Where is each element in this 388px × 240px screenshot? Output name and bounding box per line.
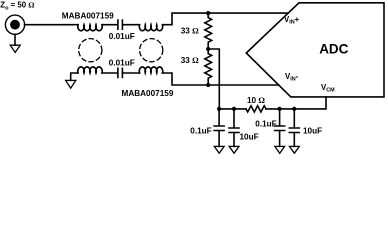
svg-text:10uF: 10uF <box>303 126 322 135</box>
svg-text:VIN-: VIN- <box>285 72 299 83</box>
node rail D <box>292 107 296 111</box>
ground (C6) <box>290 146 300 153</box>
wire center tap to VCM rail <box>208 49 219 109</box>
transformer T1 secondary winding <box>78 67 102 73</box>
transformer T2 primary winding <box>139 25 162 31</box>
node rail C <box>278 107 282 111</box>
wire T1 to C2 <box>102 72 117 74</box>
transformer T1 core (dashed circle) <box>79 39 102 62</box>
svg-text:MABA007159: MABA007159 <box>122 89 174 98</box>
op-amp ADC body (pentagon) <box>246 3 384 97</box>
ground (C3) <box>214 146 224 153</box>
resistor R1 33ohm (vertical) <box>205 13 212 49</box>
ground (C5) <box>275 146 285 153</box>
resistor R2 33ohm (vertical) <box>205 49 212 85</box>
capacitor C4 10uF (shunt) <box>229 109 239 146</box>
node top of R1 <box>206 11 210 15</box>
svg-text:Zo = 50 Ω: Zo = 50 Ω <box>0 1 34 12</box>
transformer T2 secondary winding <box>139 67 162 73</box>
node rail B <box>232 107 236 111</box>
svg-text:ADC: ADC <box>319 41 348 56</box>
ground (T1 secondary) <box>66 80 76 88</box>
node bottom of R2 <box>206 83 210 87</box>
svg-text:33 Ω: 33 Ω <box>181 56 199 65</box>
svg-text:0.01uF: 0.01uF <box>109 58 135 67</box>
wire T2 top output to VIN+ rail <box>163 13 289 25</box>
svg-text:VIN+: VIN+ <box>284 15 300 26</box>
transformer T2 core (dashed circle) <box>140 39 163 62</box>
wire T1 secondary to ground <box>71 73 78 80</box>
source VS inner dot <box>10 20 20 30</box>
svg-text:10uF: 10uF <box>240 132 259 141</box>
svg-text:0.01uF: 0.01uF <box>109 32 135 41</box>
capacitor C6 10uF (shunt) <box>289 109 299 146</box>
svg-text:MABA007159: MABA007159 <box>62 11 114 20</box>
svg-text:33 Ω: 33 Ω <box>181 27 199 36</box>
wire T2 bottom output to VIN- rail <box>163 73 279 85</box>
wire T1 to C1 <box>102 24 117 26</box>
wire source to T1 primary <box>25 24 78 26</box>
transformer T1 primary winding <box>78 25 103 31</box>
VCM rail <box>219 97 326 109</box>
wire C2 to T2 secondary <box>123 72 139 74</box>
capacitor C3 0.1uF (shunt) <box>214 109 224 146</box>
wire source to ground <box>14 34 16 45</box>
capacitor C1 0.01uF (top, series) <box>118 20 123 29</box>
capacitor C2 0.01uF (bottom, series) <box>118 68 123 77</box>
resistor R3 10ohm (horizontal) <box>246 106 266 112</box>
ground (C4) <box>229 146 239 153</box>
node center tap <box>206 47 210 51</box>
svg-text:0.1uF: 0.1uF <box>190 126 211 135</box>
capacitor C5 0.1uF (shunt) <box>275 109 285 146</box>
node rail A <box>217 107 221 111</box>
svg-text:VCM: VCM <box>321 83 335 94</box>
svg-text:0.1uF: 0.1uF <box>255 119 276 128</box>
wire C1 to T2 primary <box>123 24 139 26</box>
source VS circle <box>5 15 24 34</box>
ground (source) <box>10 45 20 52</box>
svg-text:10 Ω: 10 Ω <box>247 96 265 105</box>
